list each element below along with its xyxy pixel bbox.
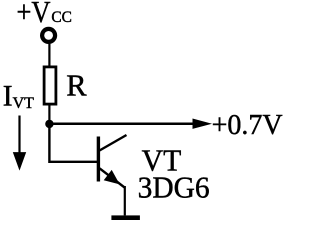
terminal Vcc — [42, 29, 55, 42]
arrow to +0.7V — [193, 119, 213, 129]
wire resistor to node — [48, 104, 50, 124]
svg-text:CC: CC — [51, 9, 72, 26]
current arrow Ivt — [13, 116, 26, 171]
node junction dot — [45, 120, 53, 128]
transistor collector line — [100, 135, 127, 151]
wire emitter to ground — [124, 186, 126, 215]
wire node down to base — [49, 124, 97, 162]
transistor emitter line — [100, 168, 125, 187]
transistor VT base bar — [97, 137, 100, 182]
wire Vcc to resistor — [48, 44, 50, 67]
emitter arrowhead — [104, 170, 120, 185]
label Ivt — [3, 81, 34, 113]
svg-text:I: I — [3, 81, 13, 113]
wire node to arrow — [49, 122, 196, 125]
svg-text:R: R — [66, 69, 87, 103]
resistor R — [44, 67, 56, 104]
svg-text:VT: VT — [13, 95, 35, 112]
svg-text:3DG6: 3DG6 — [138, 171, 210, 205]
label +Vcc — [17, 0, 72, 29]
ground — [111, 215, 139, 220]
svg-text:+V: +V — [17, 0, 51, 29]
svg-text:+0.7V: +0.7V — [212, 110, 283, 141]
